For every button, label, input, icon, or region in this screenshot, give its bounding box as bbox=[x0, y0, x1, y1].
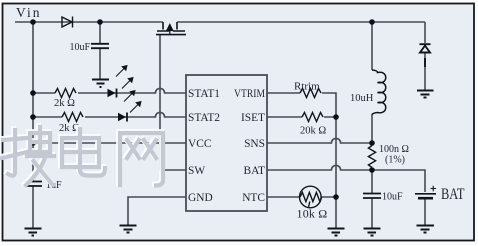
MOSFET arrow bbox=[167, 25, 173, 35]
ground below right bus bbox=[328, 229, 345, 236]
LED D2 bbox=[116, 89, 118, 98]
wire VCC row bbox=[33, 142, 186, 144]
svg-text:10uF: 10uF bbox=[382, 192, 403, 203]
wire freewheel diode leads bbox=[424, 22, 426, 90]
watermark char wang bbox=[120, 133, 163, 186]
wire left input column bbox=[32, 22, 34, 181]
LED D3 bbox=[126, 113, 128, 122]
wire STAT1 row bbox=[33, 88, 186, 93]
svg-text:STAT1: STAT1 bbox=[188, 88, 220, 100]
junction node Vin/left column bbox=[30, 19, 36, 25]
capacitor C3 10uF output plates bbox=[363, 194, 381, 199]
ground below battery bbox=[417, 226, 435, 233]
ground below GND pin bbox=[120, 226, 137, 233]
LED D2 triangle bbox=[108, 89, 116, 97]
LED D2 emission arrows bbox=[116, 66, 133, 89]
svg-text:Rtrim: Rtrim bbox=[294, 81, 320, 93]
inductor L1 coil bbox=[372, 70, 386, 115]
wire right bus vertical bbox=[335, 117, 337, 228]
svg-text:(1%): (1%) bbox=[385, 155, 405, 166]
resistor R1 2k bbox=[55, 89, 76, 98]
capacitor C2 1uF plates bbox=[24, 182, 42, 187]
wire inductor bottom lead bbox=[371, 114, 373, 143]
IC U1 body bbox=[186, 75, 267, 211]
svg-text:BAT: BAT bbox=[441, 186, 465, 203]
wire gate to SW bbox=[160, 35, 186, 170]
svg-text:NTC: NTC bbox=[242, 192, 265, 204]
wire STAT2 row bbox=[33, 112, 186, 117]
svg-text:SNS: SNS bbox=[244, 138, 265, 150]
junction node SNS sense top bbox=[369, 140, 375, 146]
watermark char dian bbox=[62, 129, 105, 176]
wire top rail from MOSFET to freewheel diode corner bbox=[177, 21, 425, 23]
wire top rail from Vin to MOSFET bbox=[15, 21, 163, 23]
wire BAT row with hop bbox=[267, 165, 425, 192]
junction node input cap bbox=[97, 19, 103, 25]
LED D3 triangle bbox=[118, 113, 126, 121]
junction node VCC row bbox=[30, 140, 36, 146]
svg-text:VTRIM: VTRIM bbox=[234, 88, 265, 100]
junction node STAT1 row bbox=[30, 90, 36, 96]
svg-text:10uF: 10uF bbox=[69, 42, 90, 53]
svg-text:STAT2: STAT2 bbox=[188, 112, 220, 124]
resistor R2 2k bbox=[62, 113, 83, 122]
svg-text:GND: GND bbox=[188, 192, 213, 204]
watermark sou dian wang bbox=[1, 126, 163, 186]
svg-text:10uH: 10uH bbox=[350, 93, 374, 104]
wire battery to ground bbox=[424, 199, 426, 225]
wire SNS row with hop bbox=[267, 138, 372, 143]
svg-text:100n Ω: 100n Ω bbox=[379, 144, 409, 155]
wire GND pin to ground bbox=[128, 197, 186, 225]
thermistor RT1 zigzag bbox=[300, 192, 322, 206]
wire VTRIM to Rtrim bbox=[267, 93, 336, 117]
junction node inductor top bbox=[369, 19, 375, 25]
wire inductor top lead bbox=[371, 22, 373, 70]
svg-text:Vin: Vin bbox=[16, 5, 41, 20]
wire input cap branch bbox=[99, 22, 101, 43]
watermark char sou bbox=[2, 130, 27, 176]
capacitor C1 10uF plates bbox=[91, 44, 109, 48]
thermistor RT1 circle bbox=[300, 186, 322, 208]
junction node NTC right bbox=[333, 194, 339, 200]
ground below C3 bbox=[364, 229, 381, 236]
junction node BAT sense bottom bbox=[369, 167, 375, 173]
resistor R4 20k bbox=[302, 113, 323, 122]
wire NTC row bbox=[267, 196, 336, 198]
resistor R3 Rtrim bbox=[300, 89, 321, 98]
junction node STAT2 row bbox=[30, 114, 36, 120]
wire sense resistor node to output cap bbox=[371, 170, 373, 193]
transistor Q1 MOSFET bbox=[156, 22, 186, 35]
LED D3 emission arrows bbox=[124, 91, 141, 113]
svg-text:SW: SW bbox=[188, 165, 205, 177]
resistor R5 sense 100n vertical bbox=[368, 146, 375, 168]
diode D4 freewheel bbox=[420, 44, 431, 67]
svg-text:VCC: VCC bbox=[188, 138, 211, 150]
battery plus sign bbox=[431, 186, 437, 191]
svg-text:BAT: BAT bbox=[243, 165, 265, 177]
wire left bottom cap to ground bbox=[32, 186, 34, 228]
ground below C2 bbox=[25, 229, 42, 236]
battery BT1 plates bbox=[415, 193, 436, 195]
wire input cap to ground bbox=[99, 49, 101, 80]
svg-text:20k Ω: 20k Ω bbox=[300, 126, 326, 137]
svg-text:2k Ω: 2k Ω bbox=[54, 98, 75, 109]
wire ISET to 20k bbox=[267, 116, 336, 118]
diode D1 input bbox=[62, 17, 73, 28]
wire output cap to ground bbox=[371, 199, 373, 229]
junction node 20k right bbox=[333, 114, 339, 120]
svg-text:ISET: ISET bbox=[241, 112, 265, 124]
ground below D4 bbox=[417, 91, 434, 98]
ground below C1 bbox=[92, 80, 109, 88]
svg-text:10k Ω: 10k Ω bbox=[297, 207, 328, 221]
